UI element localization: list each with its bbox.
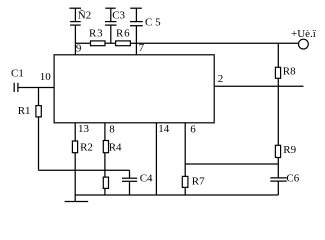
- svg-text:R2: R2: [80, 141, 93, 153]
- capacitor C6: [270, 178, 287, 181]
- resistor R8: [275, 67, 280, 78]
- capacitor C3: [105, 8, 117, 43]
- svg-text:8: 8: [109, 123, 115, 135]
- svg-text:C3: C3: [112, 9, 125, 21]
- wire: pin 2: [214, 85, 303, 87]
- svg-text:14: 14: [158, 123, 170, 135]
- capacitor C5: [130, 8, 143, 43]
- svg-text:R7: R7: [192, 175, 205, 187]
- ground stub: [74, 170, 76, 202]
- resistor R7: [182, 176, 188, 187]
- svg-text:C 5: C 5: [145, 16, 161, 28]
- svg-text:6: 6: [190, 123, 196, 135]
- svg-text:2: 2: [218, 73, 224, 85]
- svg-text:R8: R8: [283, 65, 296, 77]
- wire: pin 13 / R2 column: [74, 123, 76, 171]
- ground bar: [65, 201, 89, 203]
- svg-text:C4: C4: [140, 173, 153, 185]
- svg-text:R4: R4: [109, 142, 122, 154]
- svg-text:R1: R1: [18, 105, 31, 117]
- svg-text:R3: R3: [89, 27, 103, 39]
- svg-text:R9: R9: [283, 144, 296, 156]
- capacitor C4: [122, 170, 137, 195]
- terminal +U circle: [299, 39, 309, 49]
- wire: right column below C6: [277, 181, 279, 195]
- capacitor C1: [14, 83, 18, 92]
- svg-text:13: 13: [78, 123, 90, 135]
- svg-text:+Uè.ï: +Uè.ï: [291, 28, 316, 40]
- svg-text:Ñ2: Ñ2: [78, 9, 91, 21]
- svg-text:C6: C6: [286, 172, 299, 184]
- wire: pin 8 / R4 column: [104, 123, 106, 195]
- pin 9 stub: [74, 43, 76, 55]
- wire: right column: [277, 43, 279, 178]
- wire: top bus from pin9 node to +U terminal: [75, 42, 298, 44]
- IC U1 body: [54, 55, 214, 123]
- capacitor C2 (N2): [69, 8, 81, 43]
- wire: C1 to pin 10: [18, 87, 54, 89]
- wire: pin 6 / R7 column: [184, 123, 186, 195]
- resistor R1: [36, 106, 41, 117]
- wire: bottom-left bus W1: [39, 169, 130, 171]
- svg-text:10: 10: [40, 71, 52, 83]
- resistor R4: [103, 141, 108, 153]
- wire: pin 14 column: [155, 123, 157, 195]
- svg-text:C1: C1: [11, 68, 24, 80]
- resistor R5 unlabelled: [103, 177, 108, 188]
- wire: W2 pin6 to right column: [185, 163, 278, 165]
- svg-text:R6: R6: [116, 27, 130, 39]
- wire: R1 column: [38, 88, 40, 171]
- svg-text:7: 7: [139, 42, 145, 54]
- resistor R6: [116, 41, 131, 46]
- resistor R3: [91, 41, 106, 46]
- resistor R2: [72, 141, 77, 153]
- wire: bottom rail: [75, 194, 278, 196]
- svg-text:9: 9: [76, 42, 82, 54]
- resistor R9: [275, 145, 280, 157]
- pin 7 stub: [135, 43, 137, 55]
